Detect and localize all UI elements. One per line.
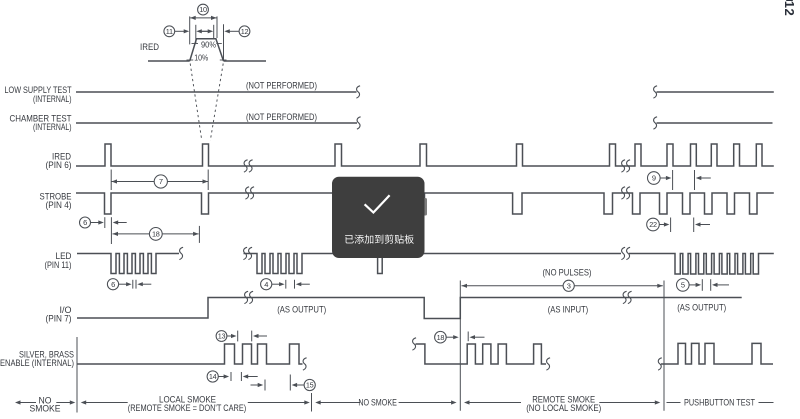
- 10% level tick left: [187, 59, 194, 61]
- svg-text:12: 12: [241, 27, 249, 36]
- section boundary tick x=311.5: [311, 393, 313, 412]
- extension line far right (10% point): [223, 24, 225, 60]
- label PUSHBUTTON TEST section: [667, 402, 681, 404]
- break squiggle row 2 right start: [653, 117, 657, 129]
- wire I/O waveform: [77, 298, 742, 319]
- tick dim 6 left: [104, 217, 106, 228]
- 90% level tick right: [216, 43, 222, 45]
- callout circle 18 right: [435, 331, 447, 343]
- leader arrow for 18 right: [446, 336, 453, 338]
- leader arrow for 6 strobe: [90, 222, 99, 224]
- tick dim 15 right: [289, 375, 291, 391]
- section divider line x=664: [663, 281, 665, 411]
- arrow into dim 22 right tick: [695, 222, 701, 226]
- svg-text:(AS INPUT): (AS INPUT): [548, 304, 589, 314]
- wire IRED waveform: [76, 144, 774, 166]
- wire STROBE waveform: [76, 193, 774, 214]
- svg-text:6: 6: [83, 218, 87, 227]
- tick dim 4 left: [285, 280, 287, 289]
- wire LED waveform right train: [425, 254, 774, 275]
- leader arrow for 13: [227, 335, 232, 337]
- svg-text:(NO PULSES): (NO PULSES): [543, 268, 592, 278]
- arrow into dim 5 right tick: [712, 283, 718, 287]
- dimension 3 line with arrows: [462, 285, 663, 287]
- break squiggle LED mid: [243, 247, 247, 259]
- tick dim 13 right: [251, 331, 253, 342]
- break squiggle silver mid end: [546, 358, 550, 370]
- leader arrow for 4 led: [272, 283, 280, 285]
- svg-text:NO SMOKE: NO SMOKE: [358, 398, 397, 408]
- callout circle 5: [677, 279, 690, 292]
- tick dim 5 right: [710, 279, 712, 291]
- callout circle 22: [647, 218, 660, 231]
- dimension 7 line with arrows: [112, 181, 209, 183]
- wire LOW SUPPLY TEST right segment: [657, 91, 774, 93]
- svg-text:4: 4: [264, 280, 268, 289]
- label NO SMOKE middle with arrows: [315, 400, 321, 404]
- leader arrow for 12: [230, 30, 240, 32]
- partial glyph cut at page top edge: [786, 0, 793, 1]
- tick dim 15 left: [264, 380, 266, 391]
- extension line inner right (90% point): [213, 25, 215, 38]
- tick dim 14 left: [230, 372, 232, 381]
- svg-text:22: 22: [649, 220, 657, 229]
- svg-text:15: 15: [306, 381, 314, 390]
- svg-text:13: 13: [218, 332, 226, 341]
- tick dim 18 right end: [198, 226, 200, 243]
- tick dim 13 left: [237, 331, 239, 342]
- 10% level tick right: [220, 59, 227, 61]
- callout circle 7: [154, 175, 167, 188]
- extension line left (10% point): [189, 16, 191, 44]
- wire SILVER BRASS waveform right train: [661, 343, 773, 364]
- wire baseline right of detail pulse: [224, 60, 267, 62]
- svg-text:6: 6: [111, 280, 115, 289]
- tick dim 6 led right: [135, 280, 137, 289]
- svg-text:14: 14: [209, 372, 217, 381]
- extension line inner left (90% point): [195, 25, 197, 44]
- wire SILVER BRASS waveform left train: [77, 344, 303, 364]
- tick dim 6 right / extension for dim 18: [110, 217, 112, 244]
- wire CHAMBER TEST left segment: [76, 122, 357, 124]
- wire SILVER BRASS waveform mid train: [416, 344, 547, 364]
- arrow into dim 6 right tick: [113, 220, 119, 224]
- callout circle 3: [563, 280, 574, 291]
- wire LOW SUPPLY TEST left segment: [76, 91, 357, 93]
- svg-text:(PIN 4): (PIN 4): [46, 200, 72, 210]
- callout circle 14: [207, 371, 218, 382]
- tick dim 4 right: [294, 280, 296, 289]
- svg-text:(INTERNAL): (INTERNAL): [33, 94, 72, 104]
- label LOCAL SMOKE section with arrows: [81, 400, 87, 404]
- dimension 10 line with arrows: [190, 17, 216, 19]
- break squiggle IRED mid: [244, 160, 248, 172]
- tick dim 6 led left: [132, 280, 134, 289]
- break squiggle silver right start: [658, 358, 662, 370]
- svg-text:IRED: IRED: [140, 42, 159, 52]
- dimension 18 line with arrows: [113, 233, 199, 235]
- rise-time inner arrow (points left): [196, 29, 202, 33]
- callout circle 10: [198, 4, 209, 15]
- break squiggle LED train1 end: [179, 247, 183, 259]
- svg-text:(REMOTE SMOKE = DON'T CARE): (REMOTE SMOKE = DON'T CARE): [128, 403, 247, 413]
- clipboard toast side tab: [423, 198, 427, 216]
- IRED detail pulse trapezoid: [190, 39, 224, 61]
- leader arrow for 14: [218, 376, 224, 378]
- break squiggle STROBE mid: [245, 187, 249, 199]
- label REMOTE SMOKE section with arrows: [464, 400, 470, 404]
- dim 14 lower arrow: [251, 384, 259, 386]
- svg-text:(INTERNAL): (INTERNAL): [33, 122, 72, 132]
- leader arrow for 6 led: [119, 283, 127, 285]
- fall-time inner arrow (points right): [208, 29, 214, 33]
- svg-text:(AS OUTPUT): (AS OUTPUT): [677, 303, 726, 313]
- svg-text:5: 5: [681, 280, 685, 289]
- zoom cone dashed line right: [210, 64, 223, 141]
- leader arrow for 5: [689, 284, 696, 286]
- tick dim 5 left: [701, 279, 703, 291]
- arrow into dim 15 tick: [292, 383, 298, 387]
- svg-text:9: 9: [652, 174, 656, 183]
- 90% level tick left: [192, 43, 199, 45]
- callout circle 15: [304, 379, 315, 390]
- break squiggle I/O right: [623, 291, 627, 303]
- svg-text:(NOT PERFORMED): (NOT PERFORMED): [246, 112, 317, 122]
- arrow into dim 18 tick: [470, 335, 476, 339]
- extension line dim 7 left: [110, 170, 112, 191]
- break squiggle row 2 left end: [357, 117, 361, 129]
- svg-text:ENABLE (INTERNAL): ENABLE (INTERNAL): [0, 358, 74, 368]
- extension line right (pulse end): [216, 16, 218, 38]
- tick dim 9 left: [672, 170, 674, 190]
- clipboard toast panel: [332, 177, 425, 258]
- break squiggle silver left end: [303, 358, 307, 370]
- svg-text:11: 11: [166, 27, 173, 36]
- wire baseline left of detail pulse: [148, 60, 190, 62]
- toast checkmark icon: [365, 195, 390, 212]
- callout circle 18: [149, 228, 162, 241]
- svg-text:18: 18: [437, 333, 445, 342]
- leader arrow for 9: [660, 177, 666, 179]
- break squiggle LED right: [621, 247, 625, 259]
- callout circle 11: [164, 26, 175, 37]
- svg-text:PUSHBUTTON TEST: PUSHBUTTON TEST: [684, 398, 755, 408]
- tick dim 9 right: [694, 170, 696, 190]
- callout circle 12: [239, 26, 250, 37]
- tick dim 22 right: [693, 218, 695, 233]
- svg-text:(NO LOCAL SMOKE): (NO LOCAL SMOKE): [526, 403, 601, 413]
- section divider line x=460: [459, 281, 461, 411]
- svg-text:(PIN 7): (PIN 7): [46, 314, 72, 324]
- callout circle 6 strobe: [80, 217, 91, 228]
- toast text 已添加到剪贴板: [345, 234, 414, 243]
- section divider line x=77: [76, 337, 78, 413]
- wire LED waveform left train: [77, 254, 179, 274]
- tick dim 18 right: [467, 332, 469, 342]
- svg-text:SMOKE: SMOKE: [30, 403, 61, 413]
- svg-text:18: 18: [152, 229, 160, 238]
- leader arrow for 22: [659, 224, 664, 226]
- svg-text:12: 12: [782, 1, 797, 16]
- arrow into dim 9 right tick: [696, 176, 702, 180]
- arrow into dim 13 right tick: [253, 334, 259, 338]
- break squiggle silver mid start: [412, 338, 416, 350]
- svg-text:10: 10: [199, 5, 207, 14]
- tick dim 14 right: [240, 372, 242, 381]
- tick dim 22 left: [670, 218, 672, 233]
- break squiggle STROBE right: [621, 187, 625, 199]
- svg-text:(PIN 11): (PIN 11): [45, 260, 72, 270]
- zoom cone dashed line left: [190, 64, 202, 141]
- callout circle 6 led: [107, 279, 118, 290]
- leader arrow for 11: [175, 30, 184, 32]
- callout circle 13: [216, 331, 227, 342]
- svg-text:10%: 10%: [194, 52, 208, 62]
- wire CHAMBER TEST right segment: [657, 122, 773, 124]
- break squiggle I/O mid: [244, 291, 248, 303]
- extension line dim 7 right: [207, 170, 209, 191]
- arrow into dim 6 led right tick: [137, 282, 143, 286]
- svg-text:(AS OUTPUT): (AS OUTPUT): [277, 304, 326, 314]
- break squiggle row 1 left end: [356, 86, 360, 98]
- break squiggle row 1 right start: [653, 86, 657, 98]
- svg-text:3: 3: [567, 281, 571, 290]
- arrow into dim 14 right tick: [243, 374, 249, 378]
- wire LED waveform mid train: [244, 254, 425, 274]
- callout circle 4 led: [261, 279, 272, 290]
- svg-text:(NOT PERFORMED): (NOT PERFORMED): [246, 80, 317, 90]
- arrow into dim 4 right tick: [296, 282, 302, 286]
- callout circle 9: [648, 172, 661, 185]
- svg-text:90%: 90%: [201, 40, 216, 50]
- break squiggle IRED right: [621, 160, 625, 172]
- svg-text:7: 7: [159, 177, 163, 186]
- svg-text:(PIN 6): (PIN 6): [46, 160, 72, 170]
